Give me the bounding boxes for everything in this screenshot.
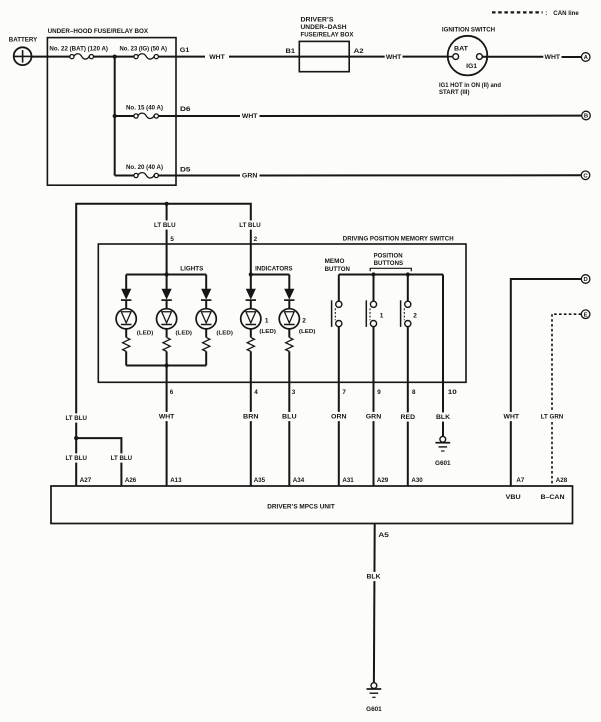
svg-text:No. 15 (40 A): No. 15 (40 A) [126,105,163,112]
junction dot LT BLU bus [165,202,169,206]
brace under position buttons [370,268,411,271]
svg-text:IG1 HOT in ON (II) and: IG1 HOT in ON (II) and [439,82,501,89]
svg-text:A5: A5 [378,532,389,539]
LED lamp 1 (lights) [116,275,153,366]
svg-text:B: B [584,114,588,120]
label LT BLU (pin5) [153,220,177,229]
svg-text:No. 22 (BAT) (120 A): No. 22 (BAT) (120 A) [49,45,108,52]
svg-text:(LED): (LED) [259,329,276,335]
wire GRN (row C) [241,171,259,180]
svg-text:5: 5 [170,236,174,243]
LED indicator 1 [241,275,276,487]
memo button switch [332,275,342,487]
svg-text:G1: G1 [180,47,190,54]
svg-text:LT BLU: LT BLU [65,415,87,422]
ground G601 (switch) [435,436,451,466]
LED lamp 3 (lights) [196,275,233,366]
svg-text:3: 3 [292,389,296,396]
svg-text:BRN: BRN [243,414,259,421]
wire WHT (row B) [241,111,259,120]
svg-text:INDICATORS: INDICATORS [255,266,293,273]
junction dot G1 branch [113,55,117,59]
position button 2 switch [401,275,418,487]
svg-text:BUTTON: BUTTON [325,266,351,273]
battery [9,36,38,65]
label BLU (A34 wire) [281,412,298,421]
svg-text:LT BLU: LT BLU [65,455,87,462]
svg-text:No. 20 (40 A): No. 20 (40 A) [126,164,163,171]
svg-text:A34: A34 [293,477,305,484]
fuse No.20 [126,164,163,178]
svg-text:D6: D6 [180,106,191,113]
driving position memory switch box [98,236,466,383]
svg-text:MEMO: MEMO [325,258,345,265]
svg-text:A13: A13 [170,477,182,484]
dashed wire B-CAN vertical [551,314,553,486]
junction dot LT BLU split [74,436,78,440]
svg-text:G601: G601 [366,706,382,713]
svg-text:E: E [584,312,588,318]
svg-text:A7: A7 [516,477,524,484]
svg-text:A30: A30 [411,477,423,484]
svg-text:A31: A31 [342,477,354,484]
svg-text:A35: A35 [254,477,266,484]
dashed wire connector E to A28 (B-CAN) [552,313,581,315]
svg-text:A29: A29 [377,477,389,484]
svg-text:4: 4 [254,389,258,396]
wire row C to connector C [260,174,582,176]
svg-text:LIGHTS: LIGHTS [180,266,204,273]
wire WHT (ignition-A) [543,52,561,61]
svg-text:UNDER–DASH: UNDER–DASH [301,24,347,31]
svg-text:A27: A27 [80,477,92,484]
label LT BLU (pin2) [238,220,262,229]
wire WHT to B1 through under-dash box [229,56,385,58]
wire ignition to connector A [482,56,543,58]
MEMO BUTTON label [325,258,351,273]
junction dot indicators bus [249,272,253,276]
svg-text:RED: RED [401,414,416,421]
svg-text:IG1: IG1 [466,63,478,70]
svg-text:WHT: WHT [504,414,520,421]
svg-text:No. 23 (IG) (50 A): No. 23 (IG) (50 A) [120,45,168,52]
svg-text:WHT: WHT [545,54,561,61]
label BRN (A35 wire) [242,412,260,421]
svg-text:D: D [583,277,587,283]
legend: CAN line [492,10,579,17]
svg-text:1: 1 [265,317,269,324]
svg-text:A28: A28 [556,477,568,484]
connector B (row B) [582,111,591,120]
wire fuse22 to junction [94,56,134,58]
junction dot button 2 [406,272,410,276]
svg-text:8: 8 [412,389,416,396]
label LT BLU (A26) [110,453,134,462]
svg-text:BAT: BAT [454,45,468,52]
svg-text:GRN: GRN [366,414,382,421]
connector D (D feed) [581,275,590,284]
svg-text:A2: A2 [354,48,365,55]
svg-text:LT BLU: LT BLU [154,222,176,229]
svg-text:BLK: BLK [436,414,450,421]
note: IG1 HOT in ON (II) and START (III) [439,82,501,96]
wire D6 row [158,115,240,117]
junction dot button 1 [371,272,375,276]
svg-text:2: 2 [413,313,417,320]
svg-text::: : [545,10,547,17]
svg-text:BUTTONS: BUTTONS [374,260,404,267]
wire LT BLU pin 5 drop [166,204,168,275]
connector E (E feed) [581,310,590,319]
wire junction feed (vertical inside under-hood box) [114,57,116,176]
connector C (row C) [581,171,590,180]
svg-text:G601: G601 [435,460,451,467]
connector A (row A) [581,53,590,62]
svg-text:LT GRN: LT GRN [541,414,564,421]
svg-text:WHT: WHT [209,54,225,61]
ignition switch [442,27,496,76]
LED indicator 2 [279,275,315,487]
position button 1 switch [366,275,383,487]
label LT BLU (A27) [64,453,88,462]
svg-text:(LED): (LED) [216,330,233,336]
svg-text:(LED): (LED) [176,330,193,336]
svg-text:10: 10 [448,389,458,396]
wire LT BLU top bus [76,204,251,486]
under-hood fuse/relay box [47,28,176,185]
ground G601 (MPCS) [366,683,382,713]
wire A5 to G601 [373,524,376,683]
INDICATORS bus [251,266,293,275]
svg-text:START (III): START (III) [439,89,470,96]
svg-text:IGNITION SWITCH: IGNITION SWITCH [442,27,496,34]
wire LT BLU branch to A26 [76,438,121,486]
svg-text:DRIVER’S: DRIVER’S [301,16,334,23]
svg-text:DRIVER’S MPCS UNIT: DRIVER’S MPCS UNIT [267,503,335,510]
driver's MPCS unit [51,486,573,524]
junction dot fuse 15 [113,114,117,118]
svg-text:A: A [584,55,589,61]
svg-text:B1: B1 [286,48,296,55]
label BLK (G601 wire) [435,412,451,421]
label RED (A30 wire) [399,412,416,421]
label WHT (A13 wire) [158,412,176,421]
svg-text:UNDER–HOOD FUSE/RELAY BOX: UNDER–HOOD FUSE/RELAY BOX [48,28,149,35]
svg-text:GRN: GRN [242,173,258,180]
fuse No.22 [49,45,108,59]
svg-text:B–CAN: B–CAN [541,494,566,501]
svg-text:6: 6 [170,389,174,396]
svg-text:WHT: WHT [386,54,402,61]
svg-text:LT BLU: LT BLU [239,222,261,229]
fuse No.23 [120,45,168,59]
svg-text:D5: D5 [180,167,191,174]
svg-text:2: 2 [254,236,258,243]
wire battery to under-hood box [32,56,70,58]
driver's under-dash fuse/relay box [299,16,354,71]
svg-text:BLK: BLK [367,574,381,581]
LIGHTS bus [126,266,206,275]
LED lamp 2 (lights) [157,275,193,366]
svg-text:DRIVING POSITION MEMORY SWITCH: DRIVING POSITION MEMORY SWITCH [343,236,454,243]
label WHT (A7 wire) [502,412,520,421]
svg-text:1: 1 [380,313,384,320]
svg-text:9: 9 [377,389,381,396]
wire WHT to A [562,56,582,58]
wire junction to fuse20 [114,174,116,177]
svg-text:(LED): (LED) [137,330,154,336]
buttons common bus [339,274,443,276]
junction dot lights bus [165,272,169,276]
wire pin 6 [166,366,168,487]
svg-text:LT BLU: LT BLU [111,455,133,462]
svg-text:7: 7 [342,389,346,396]
svg-text:FUSE/RELAY BOX: FUSE/RELAY BOX [301,31,355,38]
svg-text:WHT: WHT [242,113,258,120]
svg-text:(LED): (LED) [299,329,316,335]
junction dot lights bottom bus [165,363,169,367]
label ORN (A31 wire) [330,412,348,421]
label LT GRN (A28 wire) [540,412,565,421]
svg-text:2: 2 [302,317,306,324]
wire D5 row [158,175,240,177]
svg-text:BLU: BLU [282,414,297,421]
wire WHT (G1-B1) [208,52,226,61]
svg-text:ORN: ORN [331,414,347,421]
svg-text:VBU: VBU [506,494,522,501]
svg-text:A26: A26 [125,477,137,484]
LIGHTS bottom bus [126,365,206,367]
fuse No.15 [126,105,163,119]
POSITION BUTTONS label [374,252,404,267]
svg-text:BATTERY: BATTERY [9,36,38,43]
wire WHT into ignition switch [403,56,453,58]
wire row B to connector B [260,115,582,117]
wire WHT (A2-ignition) [385,52,403,61]
wire pin 10 common to ground [442,275,444,437]
label LT BLU (A27 wire) [64,413,88,422]
svg-text:C: C [583,173,588,179]
wire connector D to A7 [511,279,581,486]
svg-text:POSITION: POSITION [374,252,403,259]
wire junction to fuse15 [115,115,134,117]
label GRN (A29 wire) [365,412,383,421]
label BLK (A5 wire) [365,572,381,581]
svg-text:WHT: WHT [159,414,175,421]
wire fuse23 to box edge / G1 [158,56,205,58]
svg-text:CAN line: CAN line [553,10,579,17]
